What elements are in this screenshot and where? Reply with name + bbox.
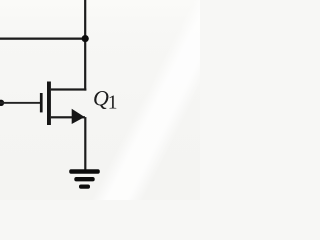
wire: source lead from channel bar to bottom rail xyxy=(51,116,85,118)
wire: drain lead from channel bar to vertical rail xyxy=(51,88,87,90)
ground: middle bar xyxy=(74,177,94,181)
node: gate input terminal dot at left edge xyxy=(0,100,4,106)
wire: gate lead from left terminal to gate bar xyxy=(0,102,40,104)
wire: top horizontal rail from left edge to junction xyxy=(0,38,86,40)
transistor Q1: channel bar xyxy=(47,82,51,126)
wire: bottom vertical wire from source corner down to ground xyxy=(84,117,86,171)
node: junction dot on top rail xyxy=(82,35,89,42)
label: transistor designator Q1 xyxy=(93,86,118,114)
svg-text:Q: Q xyxy=(93,86,109,111)
transistor Q1: source arrow head xyxy=(72,109,85,124)
transistor Q1: gate bar xyxy=(40,93,43,112)
wire: top vertical rail from top edge down to drain corner xyxy=(84,0,86,91)
svg-text:1: 1 xyxy=(108,93,118,114)
ground: top bar xyxy=(69,169,100,173)
ground: bottom bar xyxy=(79,185,90,189)
